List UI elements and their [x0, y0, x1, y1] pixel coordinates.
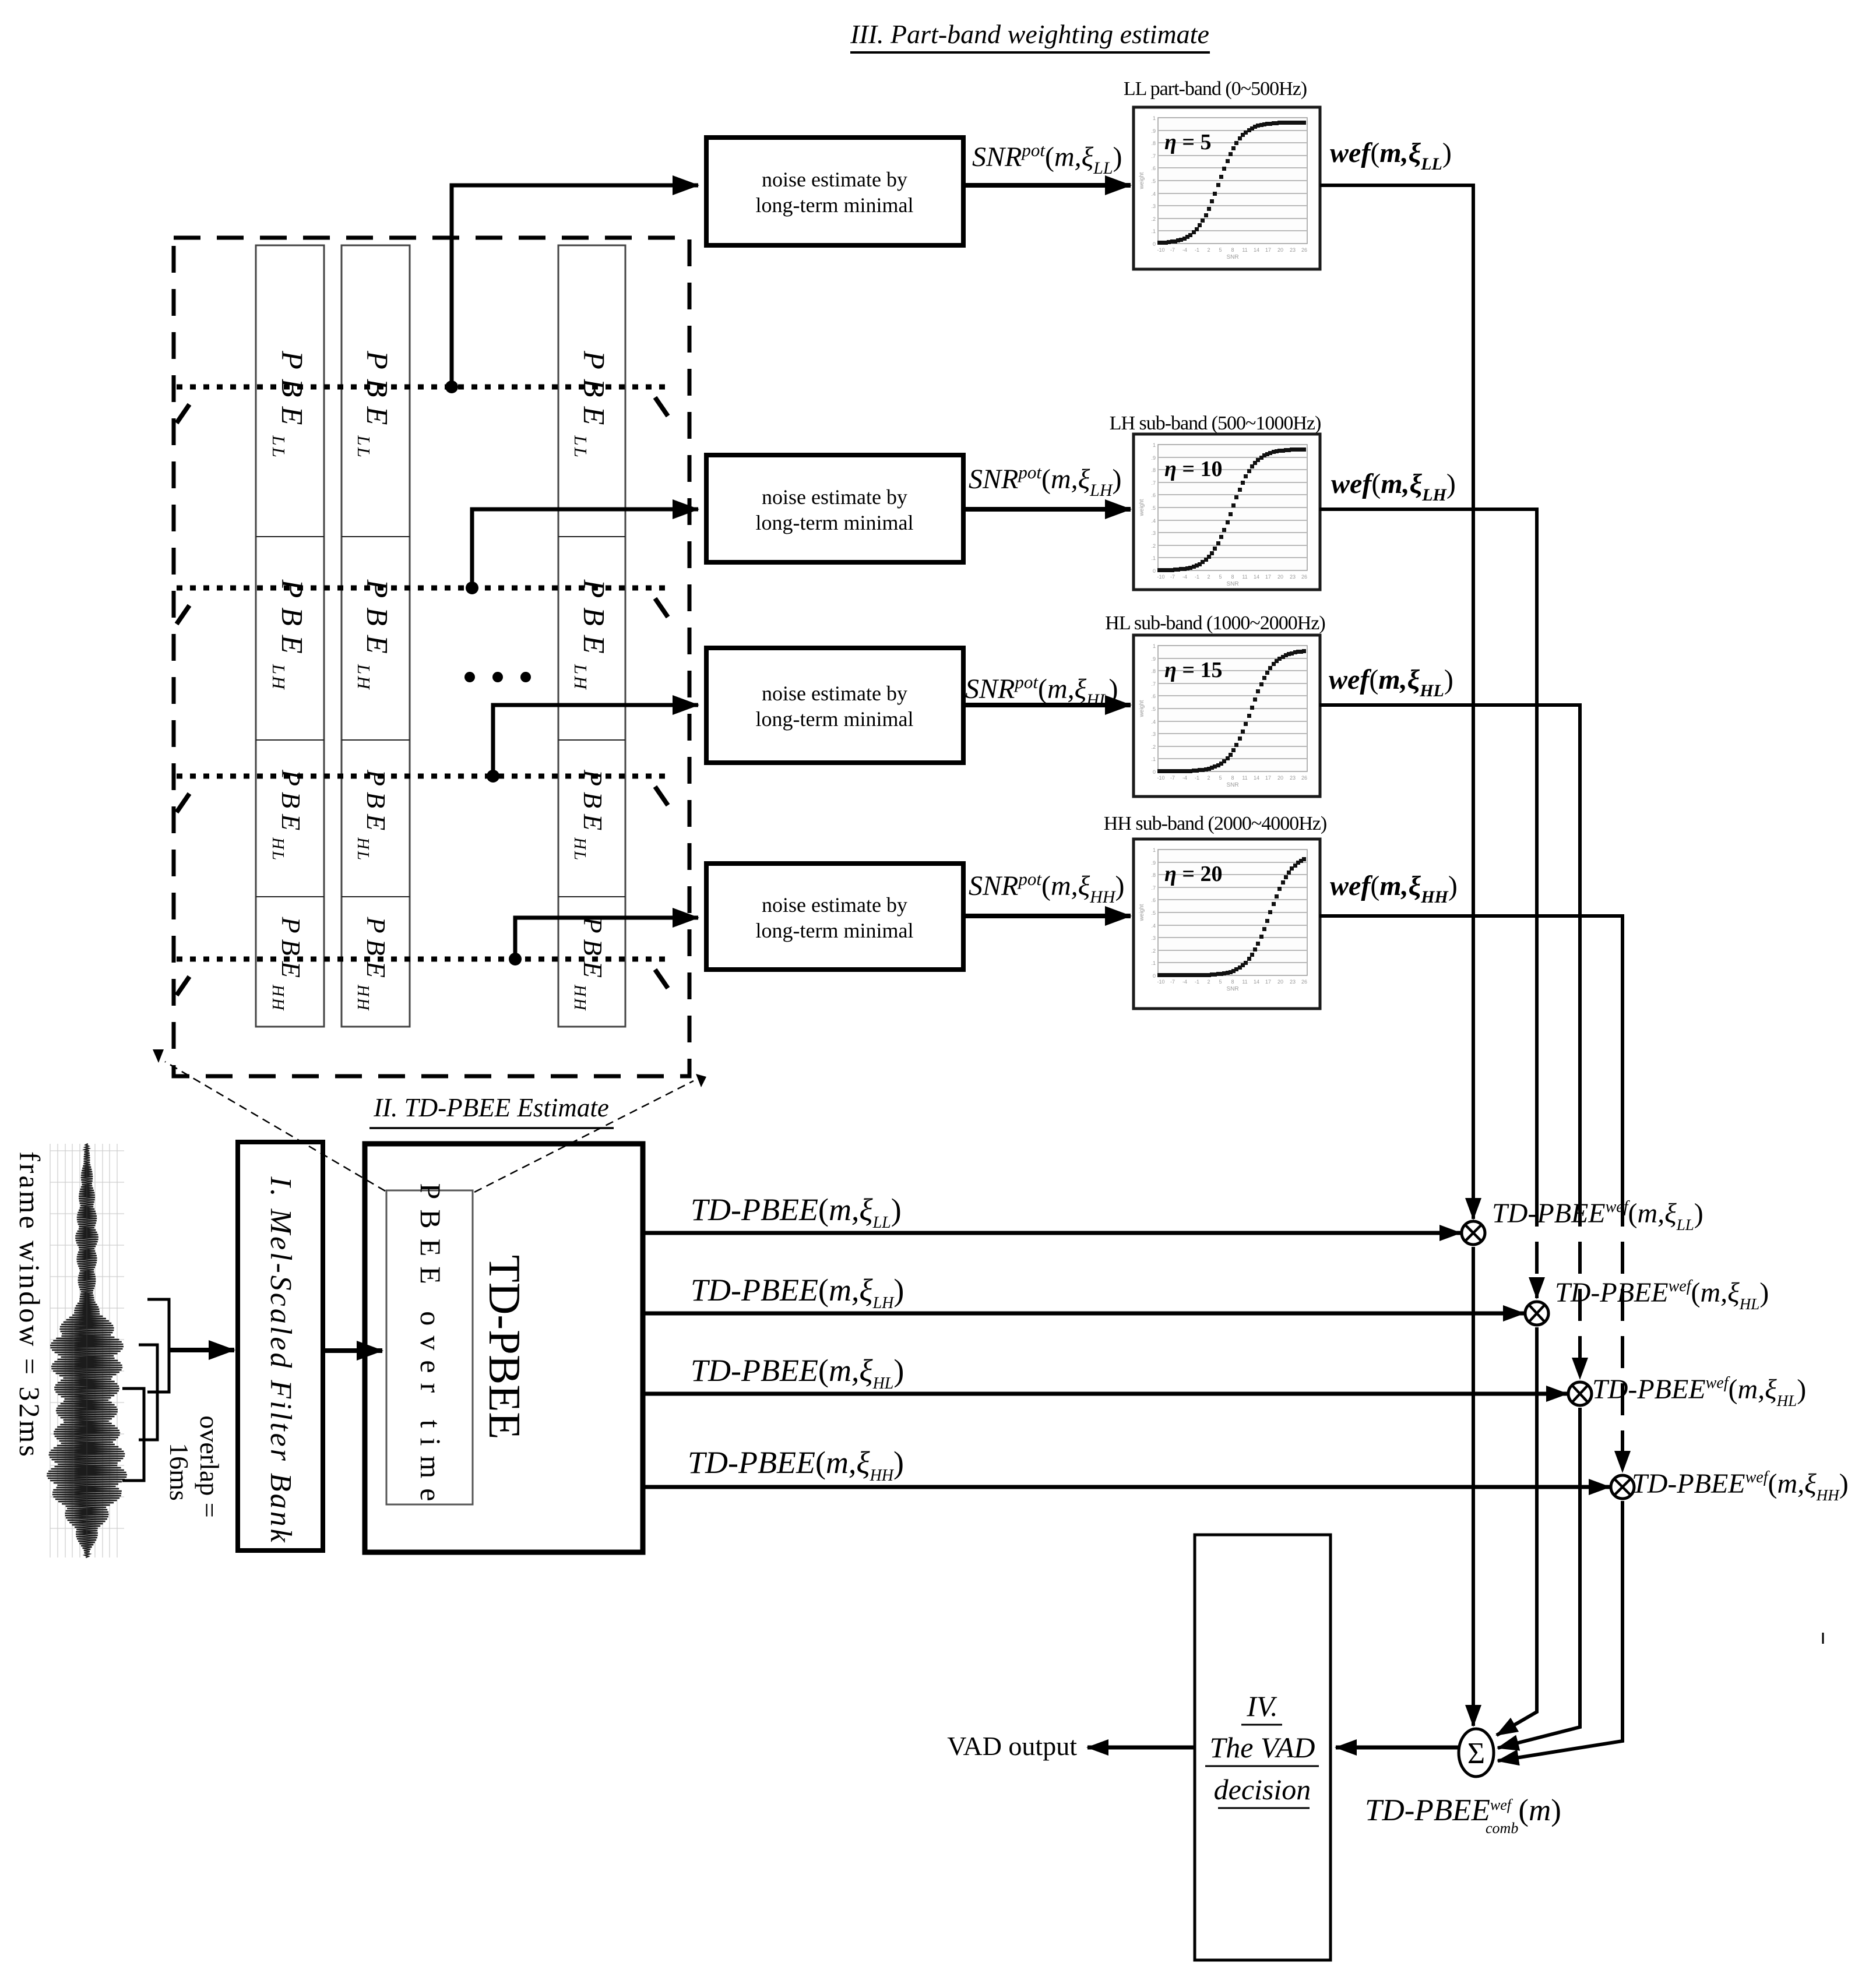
svg-text:-4: -4 [1182, 574, 1187, 580]
svg-text:11: 11 [1242, 775, 1247, 781]
svg-text:17: 17 [1265, 775, 1271, 781]
TD-PBEE line 2 [643, 1312, 1524, 1316]
svg-text:2: 2 [1207, 979, 1210, 985]
svg-text:5: 5 [1219, 574, 1222, 580]
svg-text:SNR: SNR [1226, 782, 1238, 788]
PBE_LL cell label col 1 [269, 350, 308, 459]
svg-text:5: 5 [1219, 247, 1222, 253]
svg-text:26: 26 [1301, 574, 1307, 580]
svg-text:14: 14 [1254, 574, 1259, 580]
svg-text:-10: -10 [1157, 775, 1164, 781]
SNR arrow 2 [963, 507, 1131, 512]
svg-text:TD-PBEEwef(m,ξLL): TD-PBEEwef(m,ξLL) [1492, 1198, 1703, 1234]
PBE_HL cell label col 1 [269, 769, 306, 862]
svg-text:.9: .9 [1151, 656, 1156, 662]
svg-text:17: 17 [1265, 979, 1271, 985]
svg-text:-4: -4 [1182, 247, 1187, 253]
multiplier 1 [1462, 1221, 1485, 1245]
svg-text:overlap =: overlap = [195, 1415, 224, 1517]
wef line 1 [1320, 185, 1473, 1219]
tap 3 wire [493, 705, 698, 776]
svg-text:2: 2 [1207, 247, 1210, 253]
multiplier 3 [1568, 1382, 1592, 1405]
svg-text:.5: .5 [1151, 505, 1156, 511]
svg-text:SNR: SNR [1226, 254, 1238, 260]
speech waveform image [50, 1144, 124, 1557]
svg-text:HL sub-band (1000~2000Hz): HL sub-band (1000~2000Hz) [1105, 612, 1325, 634]
svg-text:26: 26 [1301, 979, 1307, 985]
column 3 frame [558, 245, 625, 1027]
svg-text:SNR: SNR [1226, 986, 1238, 992]
tap 1 wire [452, 185, 698, 387]
svg-text:0: 0 [1153, 973, 1156, 979]
svg-text:TD-PBEEwef(m,ξHL): TD-PBEEwef(m,ξHL) [1555, 1277, 1769, 1313]
svg-text:TD-PBEE(m,ξLL): TD-PBEE(m,ξLL) [691, 1192, 902, 1232]
svg-text:-1: -1 [1195, 775, 1199, 781]
wef line 1 lower segment [1472, 1247, 1475, 1726]
TD-PBEE line 4 [643, 1485, 1610, 1489]
svg-text:.9: .9 [1151, 128, 1156, 134]
svg-text:-10: -10 [1157, 247, 1164, 253]
svg-text:20: 20 [1277, 574, 1283, 580]
TD-PBEE line 1 [643, 1231, 1460, 1235]
PBE_LH cell label col 3 [571, 579, 610, 691]
svg-text:II. TD-PBEE Estimate: II. TD-PBEE Estimate [373, 1093, 609, 1122]
window bracket 2 [139, 1345, 157, 1440]
svg-text:23: 23 [1290, 574, 1296, 580]
sigma to VAD arrow [1336, 1746, 1459, 1750]
svg-text:14: 14 [1254, 247, 1259, 253]
svg-text:η = 20: η = 20 [1164, 862, 1223, 886]
PBE_HH cell label col 1 [269, 917, 306, 1012]
TD-PBEE line 3 [643, 1392, 1567, 1396]
svg-text:0: 0 [1153, 568, 1156, 574]
svg-text:0: 0 [1153, 769, 1156, 775]
dotted line 2 [177, 586, 670, 591]
svg-text:noise estimate by: noise estimate by [762, 893, 907, 917]
svg-text:noise estimate by: noise estimate by [762, 168, 907, 191]
svg-text:weight: weight [1139, 172, 1145, 189]
svg-text:16ms: 16ms [164, 1443, 194, 1501]
svg-text:-1: -1 [1195, 574, 1199, 580]
svg-text:5: 5 [1219, 979, 1222, 985]
column 1 frame [256, 245, 324, 1027]
svg-text:-10: -10 [1157, 574, 1164, 580]
svg-text:HH sub-band (2000~4000Hz): HH sub-band (2000~4000Hz) [1104, 813, 1326, 834]
svg-text:.3: .3 [1151, 203, 1156, 209]
svg-text:TD-PBEE(m,ξLH): TD-PBEE(m,ξLH) [691, 1273, 904, 1312]
svg-text:-7: -7 [1170, 574, 1175, 580]
wef line 3 [1319, 705, 1580, 1194]
tap 2 wire [472, 509, 698, 588]
svg-text:23: 23 [1290, 775, 1296, 781]
svg-text:.4: .4 [1151, 518, 1156, 524]
svg-text:.5: .5 [1151, 178, 1156, 184]
svg-text:η = 5: η = 5 [1164, 130, 1212, 154]
Mel-scaled filter bank box [238, 1142, 323, 1550]
svg-text:.6: .6 [1151, 492, 1156, 498]
wef line 2 [1319, 509, 1537, 1194]
svg-text:-4: -4 [1182, 979, 1187, 985]
svg-text:.9: .9 [1151, 860, 1156, 866]
svg-text:-1: -1 [1195, 247, 1199, 253]
PBE_LL cell label col 2 [354, 350, 393, 459]
svg-text:I. Mel-Scaled Filter Bank: I. Mel-Scaled Filter Bank [264, 1176, 297, 1544]
svg-text:11: 11 [1242, 247, 1247, 253]
svg-text:-7: -7 [1170, 775, 1175, 781]
SNR arrow 4 [963, 914, 1131, 918]
svg-text:η = 15: η = 15 [1164, 658, 1223, 682]
PBE_LH cell label col 1 [269, 579, 308, 691]
svg-text:noise estimate by: noise estimate by [762, 485, 907, 509]
svg-text:.7: .7 [1151, 885, 1156, 891]
svg-text:14: 14 [1254, 775, 1259, 781]
svg-text:20: 20 [1277, 775, 1283, 781]
svg-text:long-term minimal: long-term minimal [756, 511, 914, 534]
svg-text:.2: .2 [1151, 543, 1156, 549]
VAD output arrow [1087, 1746, 1195, 1750]
tap 4 wire [515, 918, 698, 959]
VAD decision box [1195, 1535, 1331, 1960]
noise box 2 [706, 455, 963, 562]
svg-text:IV.: IV. [1246, 1690, 1277, 1722]
svg-text:TD-PBEE(m,ξHL): TD-PBEE(m,ξHL) [691, 1353, 904, 1393]
svg-text:26: 26 [1301, 247, 1307, 253]
svg-text:η = 10: η = 10 [1164, 457, 1223, 481]
svg-text:.6: .6 [1151, 693, 1156, 699]
svg-text:.6: .6 [1151, 897, 1156, 903]
svg-text:.8: .8 [1151, 467, 1156, 473]
svg-text:LL part-band (0~500Hz): LL part-band (0~500Hz) [1124, 78, 1307, 100]
svg-text:.3: .3 [1151, 731, 1156, 737]
noise box 3 [706, 648, 963, 763]
PBE_HH cell label col 3 [571, 917, 608, 1012]
svg-text:20: 20 [1277, 247, 1283, 253]
svg-text:8: 8 [1231, 775, 1234, 781]
multiplier 4 [1611, 1475, 1634, 1499]
svg-text:VAD output: VAD output [947, 1731, 1077, 1761]
noise box 4 [706, 864, 963, 970]
svg-text:-10: -10 [1157, 979, 1164, 985]
svg-text:.6: .6 [1151, 165, 1156, 171]
PBE_LL cell label col 3 [571, 350, 610, 459]
svg-text:.8: .8 [1151, 140, 1156, 146]
column 2 frame [342, 245, 410, 1027]
svg-text:.7: .7 [1151, 153, 1156, 159]
svg-text:.1: .1 [1151, 960, 1156, 966]
svg-text:2: 2 [1207, 775, 1210, 781]
svg-text:.4: .4 [1151, 191, 1156, 197]
dotted line 3 [177, 774, 670, 779]
svg-text:8: 8 [1231, 979, 1234, 985]
frame window label [13, 1151, 46, 1459]
svg-text:.1: .1 [1151, 228, 1156, 234]
svg-text:1: 1 [1153, 643, 1156, 649]
svg-text:TD-PBEEwef(m,ξHL): TD-PBEEwef(m,ξHL) [1592, 1374, 1806, 1409]
wef line 4 [1319, 916, 1622, 1194]
svg-text:long-term minimal: long-term minimal [756, 919, 914, 942]
svg-text:2: 2 [1207, 574, 1210, 580]
multiplier 2 [1525, 1302, 1548, 1325]
svg-text:.9: .9 [1151, 455, 1156, 461]
svg-text:TD-PBEEwef(m,ξHH): TD-PBEEwef(m,ξHH) [1632, 1468, 1849, 1504]
svg-text:Σ: Σ [1467, 1737, 1485, 1770]
svg-text:.1: .1 [1151, 756, 1156, 762]
svg-text:.1: .1 [1151, 555, 1156, 561]
svg-text:.8: .8 [1151, 668, 1156, 674]
svg-text:.3: .3 [1151, 530, 1156, 536]
svg-text:.2: .2 [1151, 948, 1156, 954]
PBE_HL cell label col 3 [571, 769, 608, 862]
svg-text:weight: weight [1139, 700, 1145, 717]
overlap label [195, 1415, 224, 1517]
TD-PBEE big label [480, 1255, 530, 1440]
svg-text:.7: .7 [1151, 681, 1156, 687]
svg-text:.2: .2 [1151, 744, 1156, 750]
window bracket 3 [122, 1389, 144, 1481]
PBE_HL cell label col 2 [354, 769, 391, 862]
svg-text:1: 1 [1153, 442, 1156, 448]
TD-PBEE box [365, 1144, 643, 1552]
svg-text:5: 5 [1219, 775, 1222, 781]
window bracket 1 [147, 1299, 169, 1392]
svg-text:.5: .5 [1151, 706, 1156, 712]
svg-text:frame window = 32ms: frame window = 32ms [13, 1151, 46, 1459]
svg-text:LH sub-band (500~1000Hz): LH sub-band (500~1000Hz) [1110, 413, 1321, 434]
svg-text:long-term minimal: long-term minimal [756, 707, 914, 731]
svg-text:TD-PBEE: TD-PBEE [480, 1255, 530, 1440]
svg-text:1: 1 [1153, 115, 1156, 121]
svg-text:The VAD: The VAD [1210, 1731, 1315, 1764]
svg-text:-7: -7 [1170, 979, 1175, 985]
svg-text:14: 14 [1254, 979, 1259, 985]
PBE_LH cell label col 2 [354, 579, 393, 691]
PBEE over time inner box [386, 1190, 473, 1504]
svg-text:weight: weight [1139, 499, 1145, 516]
svg-text:0: 0 [1153, 241, 1156, 247]
svg-text:20: 20 [1277, 979, 1283, 985]
svg-text:.7: .7 [1151, 480, 1156, 486]
svg-text:.8: .8 [1151, 872, 1156, 878]
dashed connector left [165, 1062, 385, 1191]
dotted line 4 [177, 957, 670, 962]
svg-text:23: 23 [1290, 247, 1296, 253]
ellipsis dots [464, 672, 475, 682]
svg-text:-7: -7 [1170, 247, 1175, 253]
svg-text:23: 23 [1290, 979, 1296, 985]
svg-text:noise estimate by: noise estimate by [762, 682, 907, 705]
dashed connector right [474, 1081, 694, 1192]
svg-text:long-term minimal: long-term minimal [756, 193, 914, 217]
svg-text:.2: .2 [1151, 216, 1156, 222]
svg-text:decision: decision [1214, 1773, 1311, 1806]
PBE_HH cell label col 2 [354, 917, 391, 1012]
svg-text:8: 8 [1231, 247, 1234, 253]
dotted line 1 [177, 385, 670, 390]
svg-text:PBEE over time: PBEE over time [414, 1183, 447, 1511]
arrow waveform to mel box [169, 1348, 234, 1352]
svg-text:SNR: SNR [1226, 581, 1238, 587]
svg-text:weight: weight [1139, 904, 1145, 921]
svg-text:-4: -4 [1182, 775, 1187, 781]
summation node [1459, 1729, 1494, 1777]
SNR arrow 1 [963, 183, 1131, 188]
svg-text:26: 26 [1301, 775, 1307, 781]
svg-text:17: 17 [1265, 247, 1271, 253]
svg-text:1: 1 [1153, 847, 1156, 853]
svg-text:17: 17 [1265, 574, 1271, 580]
svg-text:11: 11 [1242, 979, 1247, 985]
SNR arrow 3 [963, 703, 1131, 707]
dashed box: TD-PBEE estimate detail [174, 238, 689, 1076]
noise box 1 [706, 138, 963, 245]
svg-text:.5: .5 [1151, 910, 1156, 916]
svg-text:11: 11 [1242, 574, 1247, 580]
svg-text:-1: -1 [1195, 979, 1199, 985]
small artifact mark [1822, 1633, 1824, 1644]
svg-text:III. Part-band weighting estim: III. Part-band weighting estimate [850, 19, 1209, 49]
svg-text:8: 8 [1231, 574, 1234, 580]
svg-text:.4: .4 [1151, 923, 1156, 929]
svg-text:.4: .4 [1151, 719, 1156, 725]
arrow mel to PBEE [323, 1348, 382, 1353]
svg-text:.3: .3 [1151, 935, 1156, 941]
